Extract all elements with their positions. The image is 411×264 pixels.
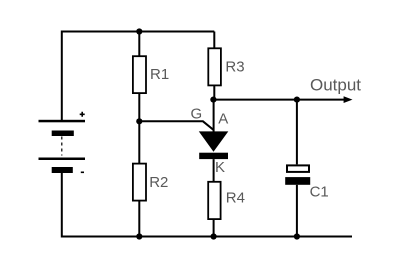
wire: R4 bottom to bottom rail [213,219,215,236]
node: junction dot R1/R2/G [136,118,142,124]
battery B1: negative short thick plate [52,167,73,173]
node: junction dot R2 / bottom rail [136,233,142,239]
svg-text:R2: R2 [149,174,168,191]
svg-text:C1: C1 [310,184,329,201]
wire: bottom rail [62,236,352,238]
thyristor D1: anode triangle [199,131,229,151]
battery label + [80,112,85,117]
resistor R4 [208,182,220,219]
wire: G node down to R2 [138,121,140,164]
wire: top rail from battery to R3 branch [62,31,215,33]
svg-text:G: G [191,106,203,123]
capacitor C1: top plate (hollow) [287,165,309,172]
wire: gate wire from divider node to D1 [139,121,213,130]
node: junction dot C1 / bottom rail [294,233,300,239]
resistor R2 [133,164,146,201]
wire: R2 bottom to bottom rail [138,201,140,237]
battery B1: dashed cell separator [61,137,63,156]
svg-text:R3: R3 [225,59,244,76]
node: junction dot output / C1 branch [294,97,300,103]
wire: R1 branch top stub [138,32,140,58]
wire: left vertical, battery - plate down to bottom rail [61,173,63,238]
resistor R1 [133,56,146,93]
thyristor D1: cathode bar [199,153,228,159]
svg-text:R1: R1 [150,66,169,83]
node: junction dot R4 / bottom rail [211,233,217,239]
battery B1: upper short thick plate [52,131,74,137]
svg-text:Output: Output [310,76,361,95]
wire: C1 branch from output node down [296,100,298,165]
wire: anode stub down to D1 [213,100,215,132]
output arrowhead [344,96,353,103]
battery label - [81,171,84,173]
capacitor C1: bottom plate (solid) [285,177,310,185]
wire: C1 bottom to bottom rail [296,185,298,237]
node: junction dot top rail / R1 [136,28,142,34]
wire: cathode to R4 [213,159,215,182]
resistor R3 [208,48,221,85]
wire: R3 bottom to output node [213,85,215,100]
wire: output line [214,99,345,101]
svg-text:R4: R4 [226,190,245,207]
wire: left vertical, top rail down to battery + plate [61,31,63,121]
battery B1: positive long plate [39,120,86,123]
svg-text:A: A [218,111,228,128]
wire: R3 branch top stub [213,32,215,50]
battery B1: lower long plate [39,158,86,161]
wire: R1 bottom to G node [138,93,140,122]
node: junction dot R3 / output [210,97,216,103]
svg-text:K: K [215,159,225,176]
